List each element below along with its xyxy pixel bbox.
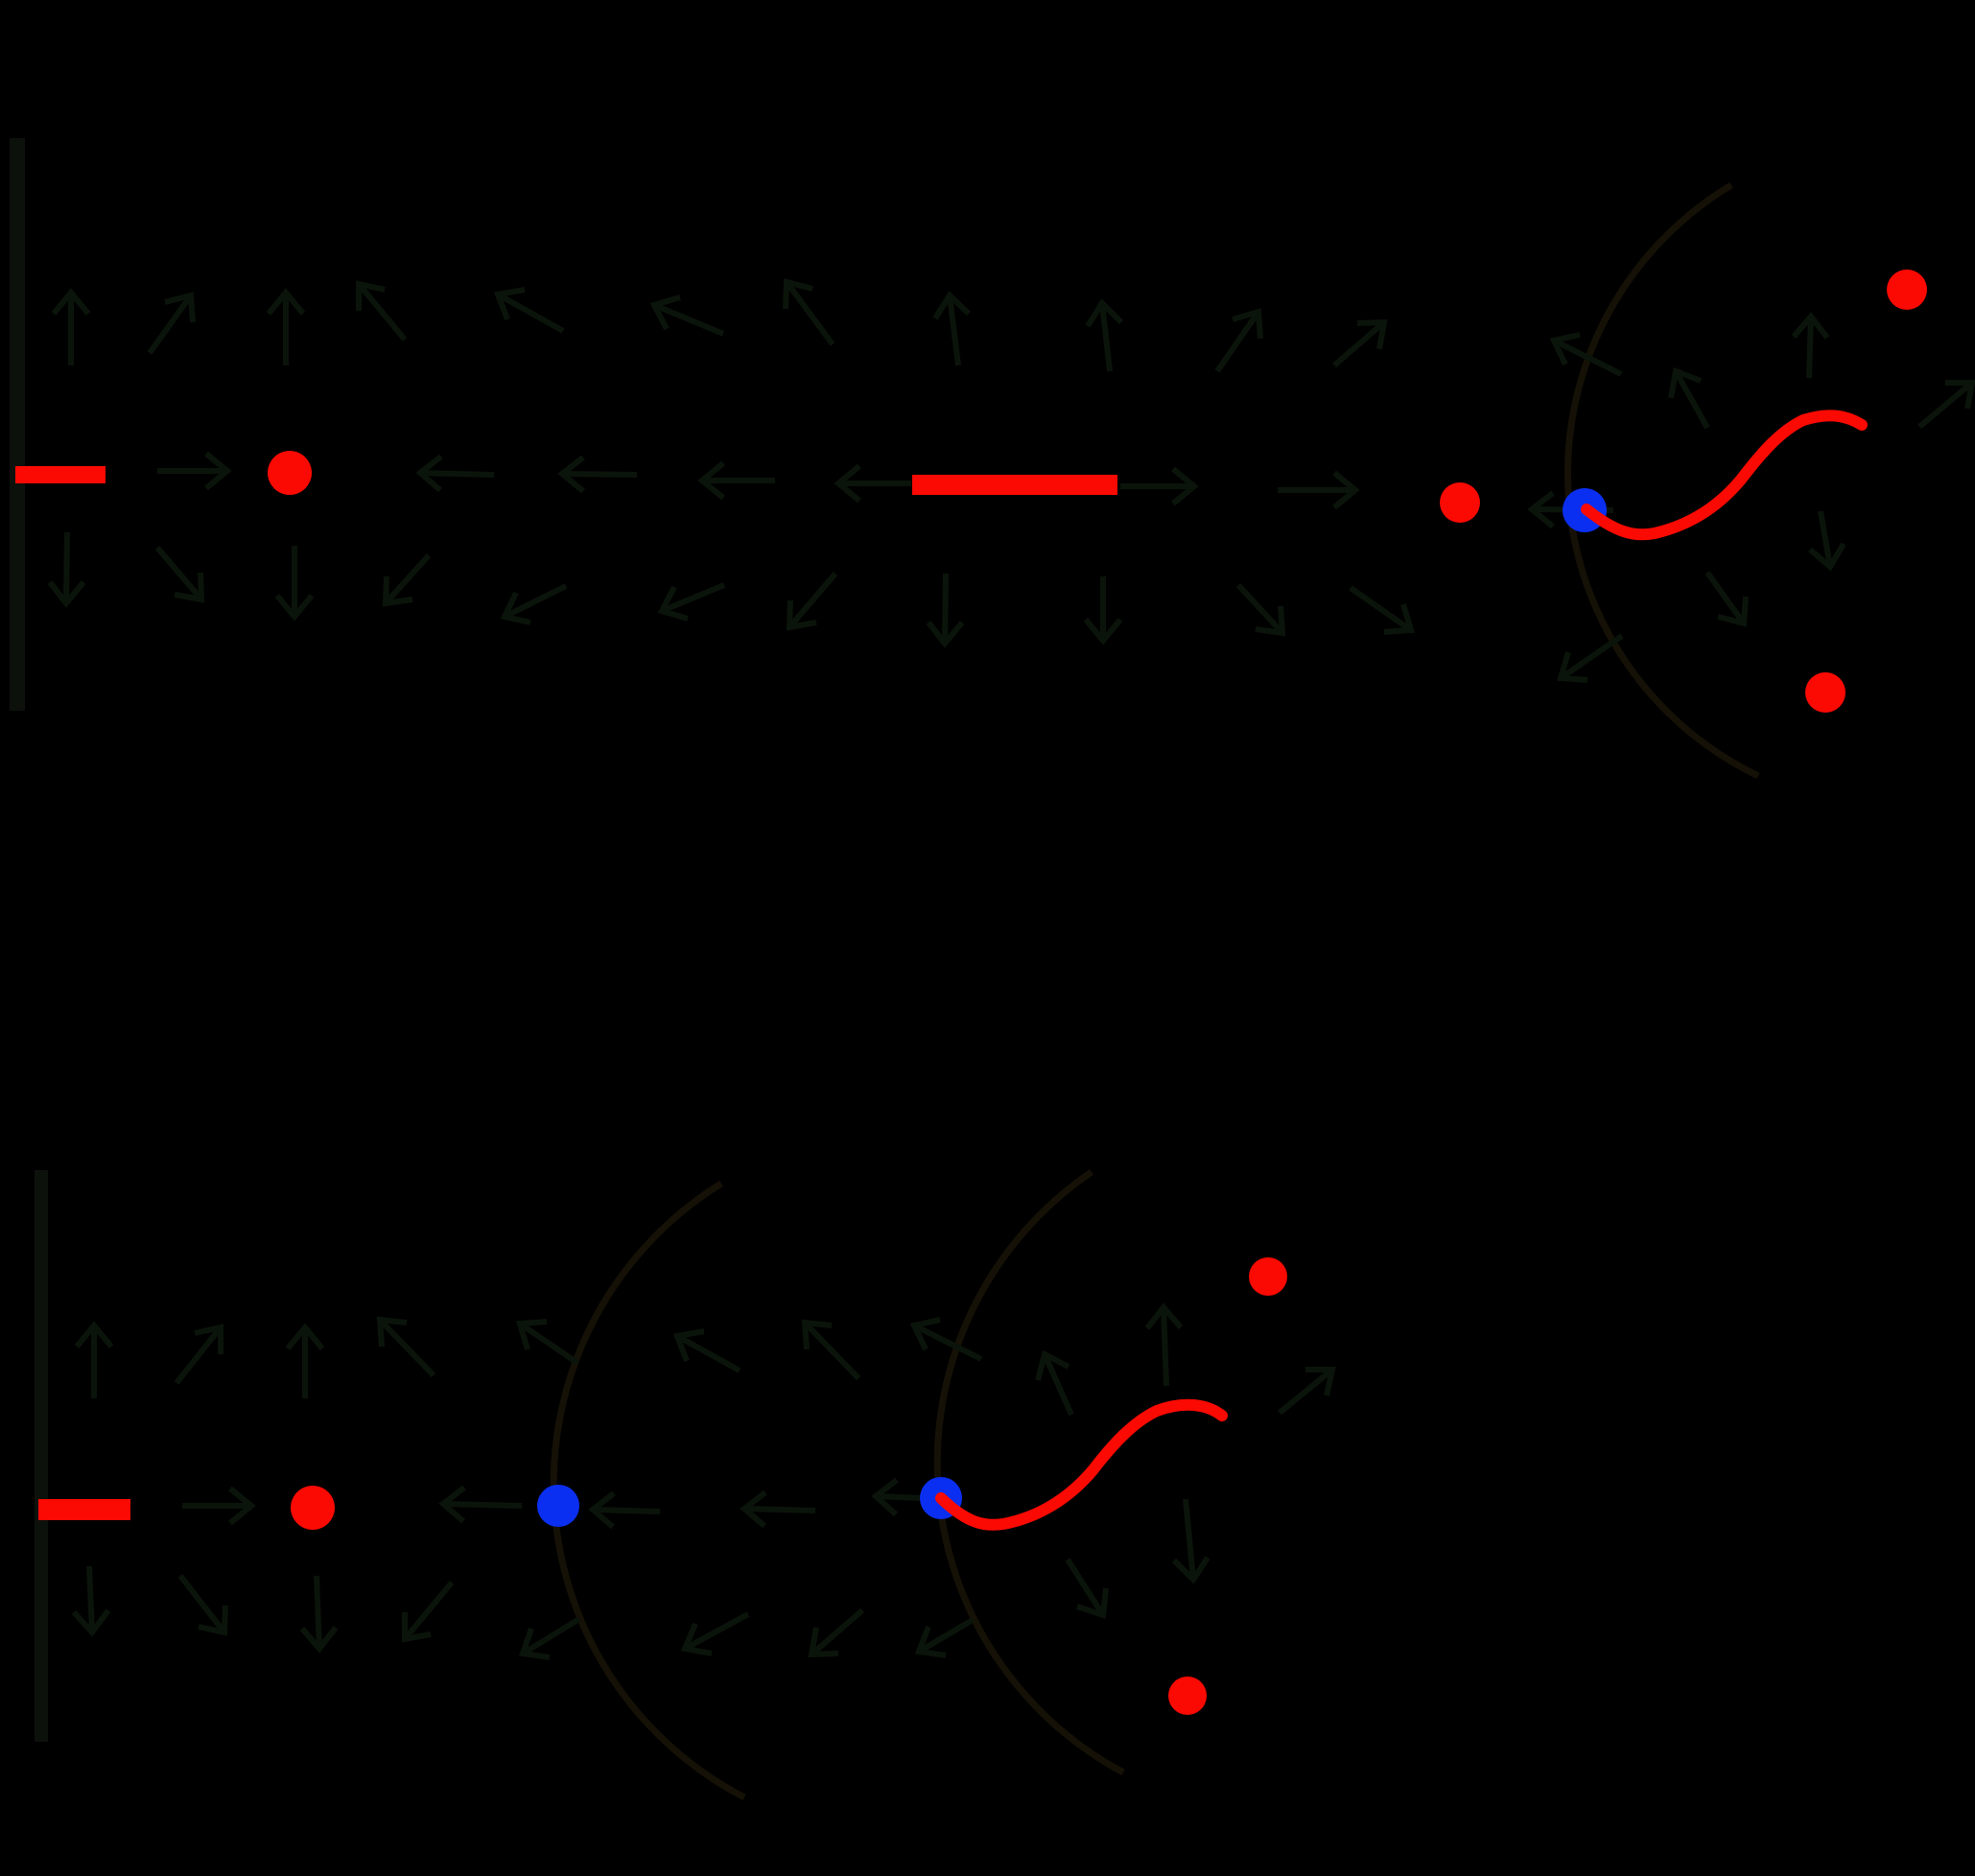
- field arrow B11 (down-right): [1351, 588, 1411, 632]
- field arrow C6 (down-right, inside arc A1): [1707, 573, 1746, 623]
- field arrow T4 (up-left): [359, 284, 405, 340]
- field arrow F2 (left-pointing): [443, 1488, 522, 1521]
- red stub P1 (charge segment on wall W1): [15, 466, 106, 483]
- red dot O3 (upper right): [1887, 270, 1927, 310]
- field arrow U9 (up, inside arc A3): [1038, 1354, 1071, 1415]
- field arrow B9 (down): [1086, 576, 1120, 641]
- field arrow T3 (up): [269, 293, 303, 365]
- field arrow E2 (left-pointing): [420, 457, 494, 490]
- arc A2 (circle arc around blue charge B2): [553, 1184, 744, 1797]
- field arrow C1 (up, above spring S1): [1794, 317, 1827, 378]
- field arrow E5 (left-pointing): [838, 466, 911, 501]
- field arrow D2 (down-right): [180, 1576, 225, 1632]
- field arrow F5 (short, left of blue dot B3): [876, 1480, 921, 1514]
- field arrow D6 (down-left): [685, 1614, 748, 1653]
- red dot O4 (lower right): [1805, 672, 1846, 713]
- field arrow U5 (up-left): [520, 1322, 577, 1363]
- blue charge dot B3: [920, 1477, 962, 1519]
- red observation dot O2: [1440, 482, 1480, 523]
- field arrow B10 (down-right): [1238, 585, 1282, 633]
- field arrow E1 (right of stub P1): [157, 454, 227, 488]
- field arrow U2 (up-right): [176, 1327, 221, 1383]
- field arrow F4 (left-pointing): [744, 1492, 815, 1526]
- field arrow D9 (down-right, inside arc A3): [1068, 1559, 1106, 1615]
- red observation dot O5: [291, 1486, 335, 1530]
- field arrow B4 (down-left): [386, 555, 429, 603]
- field arrow T9 (up): [1088, 303, 1121, 371]
- field arrow D8 (down-left, crossing arc A3): [919, 1620, 973, 1655]
- red dot O7 (lower right of bottom figure): [1168, 1677, 1207, 1715]
- arc A1 (large circle arc around blue charge B1): [1567, 185, 1758, 776]
- field arrow U10 (up, above spring S2): [1147, 1307, 1181, 1386]
- field arrow B5 (down-left): [505, 586, 566, 622]
- arc A3 (circle arc around blue charge B3): [937, 1172, 1123, 1772]
- field arrow F1 (right of stub P2): [182, 1489, 251, 1523]
- field arrow T11 (up-right): [1334, 322, 1384, 365]
- field arrow E8 (from blue dot B1 toward O2): [1532, 493, 1613, 527]
- red stub P2 (charge segment on wall W2): [38, 1499, 130, 1520]
- field arrow U11 (up-right): [1280, 1370, 1332, 1413]
- field arrow U3 (up): [288, 1327, 322, 1398]
- blue charge dot B1: [1563, 488, 1607, 532]
- red observation dot O1: [268, 451, 312, 495]
- wall W1 (top figure, charged plate at left): [10, 138, 25, 711]
- field arrow D4 (down-left): [405, 1583, 452, 1639]
- field arrow E4 (left-pointing): [702, 463, 775, 498]
- field arrow E7 (right-pointing): [1278, 473, 1355, 507]
- field arrow U6 (up-left): [677, 1331, 740, 1371]
- field arrow T8 (up): [935, 295, 969, 365]
- field arrow U1 (up): [77, 1325, 111, 1398]
- field arrow E6 (right of rod R1): [1120, 469, 1194, 504]
- field arrow T6 (up-left): [654, 297, 723, 334]
- field arrow T2 (up-right): [150, 295, 193, 353]
- field arrow T7 (up-left): [786, 282, 833, 344]
- field arrow B3 (down): [277, 546, 312, 617]
- field arrow U4 (up-left): [380, 1320, 434, 1375]
- field arrow B6 (down-left): [662, 585, 724, 619]
- field arrow D1 (down): [74, 1566, 108, 1632]
- field arrow T10 (up-right): [1217, 312, 1260, 371]
- field arrow T5 (up-left): [498, 290, 563, 331]
- field arrow C4 (up, inside arc A1): [1671, 371, 1707, 428]
- field arrow C3 (up-left, crossing arc A1 top): [1554, 335, 1621, 374]
- spring curve S1 (red wavy cord from blue dot B1): [1587, 415, 1862, 534]
- field arrow B7 (down-left): [789, 574, 835, 627]
- field arrow D3 (down): [302, 1576, 336, 1649]
- field arrow T1 (up): [54, 293, 88, 365]
- field arrow C2 (up-right, right edge): [1919, 383, 1972, 427]
- field arrow U7 (up-left): [805, 1323, 858, 1378]
- field arrow C7 (down-left, crossing arc A1 bottom): [1561, 636, 1622, 680]
- field arrow B8 (down): [929, 574, 962, 644]
- wall W2 (bottom figure, charged plate at left): [35, 1170, 48, 1742]
- spring curve S2 (red wavy cord from blue dot B3): [941, 1405, 1222, 1525]
- field arrow D5 (down-left): [523, 1619, 579, 1657]
- field arrow F3 (left-pointing): [593, 1493, 660, 1527]
- field arrow B1 (down): [50, 532, 83, 603]
- field arrow D10 (down, below spring S2): [1174, 1499, 1208, 1580]
- field arrow U8 (up-left, crossing arc A3): [914, 1320, 981, 1359]
- red dot O6 (upper right of bottom figure): [1249, 1257, 1287, 1296]
- red rod R1 (charged rod): [912, 475, 1117, 495]
- field arrow E3 (left-pointing): [562, 457, 637, 491]
- blue charge dot B2: [537, 1485, 579, 1527]
- field arrow C5 (down, below spring S1): [1810, 511, 1844, 567]
- field arrow B2 (down-right): [157, 548, 201, 599]
- field arrow D7 (down-left): [811, 1610, 862, 1654]
